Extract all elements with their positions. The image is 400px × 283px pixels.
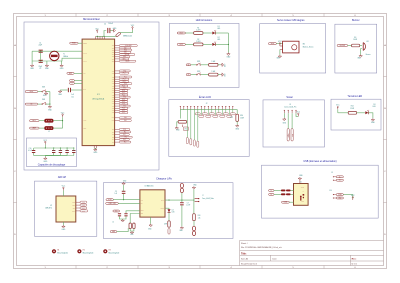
svg-text:PL2: PL2 [123, 134, 126, 136]
ground temoin [371, 118, 376, 124]
IC U1 top power pins [96, 36, 105, 39]
ground chargeur right [192, 186, 195, 189]
svg-text:D3: D3 [373, 104, 375, 106]
ground LEDs [227, 53, 232, 59]
wire A6 to IC [74, 80, 82, 82]
wire R12 to D3 [357, 112, 365, 114]
svg-text:PL3: PL3 [125, 137, 128, 139]
title block frame [240, 240, 384, 265]
svg-text:B1: B1 [188, 64, 190, 66]
net label B1 [186, 64, 191, 66]
wire cap 4 gnd rail [45, 155, 74, 157]
svg-text:Echo: Echo [291, 134, 293, 137]
wire BATT rail [165, 199, 194, 201]
LED D3 [365, 110, 369, 114]
net label AD8 [67, 72, 74, 75]
svg-text:R16: R16 [240, 115, 243, 117]
svg-text:KiCad E.D.A. 8.0.5: KiCad E.D.A. 8.0.5 [241, 263, 257, 266]
svg-text:22pF: 22pF [38, 44, 42, 46]
wire choke to J1 b [291, 193, 294, 195]
junction decoupling 0 [45, 147, 46, 148]
resistor R10 5.1k [209, 73, 218, 76]
net label D- [269, 190, 274, 192]
wire C11 to gnd [60, 89, 68, 91]
svg-text:L2: L2 [48, 131, 50, 133]
svg-text:22pF: 22pF [38, 66, 42, 68]
wire choke to J1 a [291, 190, 294, 192]
svg-text:PC0: PC0 [124, 70, 127, 72]
svg-text:LED & boutons: LED & boutons [196, 19, 213, 22]
wire cap 0 top [33, 148, 35, 150]
wire C4 to GND [111, 30, 113, 32]
svg-text:PC1: PC1 [123, 73, 126, 75]
wire VCC top rail [96, 35, 117, 37]
wire VUSB to J1 [289, 201, 293, 203]
ground servo [278, 55, 281, 58]
svg-text:Date:: Date: [272, 257, 277, 260]
svg-text:LS1: LS1 [366, 41, 369, 43]
wire cap 1 top [53, 148, 55, 150]
svg-text:LED2: LED2 [180, 44, 184, 46]
svg-text:2.2uF: 2.2uF [186, 205, 190, 207]
wire cap 4 top [73, 148, 75, 150]
wire vcc to rail [44, 145, 46, 148]
svg-text:470R: 470R [164, 224, 167, 226]
USB connector J1 body [294, 184, 309, 206]
svg-text:C1: C1 [39, 42, 41, 44]
wire cap 2 gnd rail [45, 155, 60, 157]
connector P1 pad b [180, 188, 183, 193]
svg-text:IC1: IC1 [97, 94, 100, 96]
net label VUSB chargeur [106, 199, 113, 201]
wire XTAL2 to IC [32, 50, 82, 52]
wire R10 to gnd [218, 74, 221, 76]
svg-text:VBUS: VBUS [301, 187, 304, 189]
svg-text:J4: J4 [112, 222, 114, 224]
junction decoupling 4 [73, 147, 74, 148]
capacitor C3 1uF [122, 191, 126, 194]
IC U1 right labels group C [112, 117, 132, 122]
net label Servo [268, 43, 276, 45]
svg-text:PL5: PL5 [124, 142, 127, 144]
svg-text:J3: J3 [331, 172, 333, 174]
servo M1 pins [280, 46, 283, 50]
svg-text:BUZZER: BUZZER [340, 45, 345, 47]
wire SELV left [126, 211, 140, 213]
svg-text:Écran LCD: Écran LCD [199, 96, 211, 99]
ground decoupling [43, 157, 48, 163]
wire servo signal [276, 43, 282, 45]
svg-text:Conn_01x04_Pin: Conn_01x04_Pin [284, 107, 296, 109]
svg-text:M1: M1 [303, 44, 305, 46]
wire uCAP [71, 89, 82, 91]
ground R cluster [130, 231, 133, 234]
resistor R1 2.2k [194, 32, 203, 35]
wire to FB1 [39, 120, 45, 122]
section box USB [262, 165, 379, 218]
svg-text:D2: D2 [218, 37, 220, 39]
USB J1 pin names [301, 187, 305, 203]
switch SW4 [42, 102, 47, 104]
svg-text:VUSB: VUSB [338, 194, 342, 196]
net label LED1 [177, 32, 185, 34]
connector J10 pins [333, 194, 336, 198]
mounting hole H3 [103, 249, 107, 253]
wire sonar vcc [296, 113, 298, 116]
diode D5 diagonal [116, 32, 121, 37]
wire sonar echo [291, 113, 293, 128]
wire buzzer gnd [361, 49, 362, 55]
resistor R14 1.2k [193, 214, 196, 221]
svg-text:D+: D+ [339, 180, 341, 182]
net label GND right [336, 197, 343, 199]
wire to FB2 [39, 127, 45, 129]
wire to C4 [104, 31, 106, 37]
wire LED gnd drop [227, 33, 229, 53]
wire to gnd sw [49, 104, 51, 105]
wire rail to R14 [193, 200, 195, 214]
net label D+ [269, 193, 274, 195]
svg-text:1.2k: 1.2k [198, 217, 201, 219]
wire cap 2 top [59, 148, 61, 150]
svg-text:SCK: SCK [73, 207, 76, 209]
IC U1 bottom pins [94, 146, 96, 149]
svg-text:Microcontrôleur: Microcontrôleur [83, 18, 100, 21]
sonar connector J5 pins [284, 110, 297, 113]
section box Microcontroleur [24, 22, 159, 170]
section box Capacites de decouplage [27, 138, 77, 167]
ground above USB [298, 177, 301, 180]
resistor R9 5.1k [209, 63, 218, 66]
FB2 dots [46, 127, 52, 130]
net label D- right [336, 176, 343, 178]
VCC symbol AVCC [61, 112, 65, 117]
wire B1 to SW1 [191, 64, 197, 66]
IC U3 body [140, 190, 165, 217]
svg-text:ID: ID [303, 197, 304, 199]
wire SEL left [130, 214, 140, 224]
IC U1 left pin names [83, 43, 87, 130]
wire R15 R17 join [130, 229, 134, 231]
wire caps join [120, 216, 127, 219]
wire sonar trig [287, 113, 289, 128]
wire diode to VCC2 [120, 30, 133, 33]
capacitor C2 22pF [39, 60, 43, 63]
capacitor C7 decoupling [59, 150, 62, 153]
svg-text:Size: A4: Size: A4 [241, 257, 248, 260]
svg-text:Trigger: Trigger [287, 133, 289, 138]
svg-text:EN: EN [141, 203, 143, 205]
net label AVCC [30, 119, 40, 122]
net label A6 [70, 79, 75, 82]
switch SW2 [196, 73, 201, 75]
wire AD8 to IC [74, 72, 82, 74]
wire C1 to C2 [40, 53, 42, 60]
svg-text:PG1: PG1 [112, 120, 115, 122]
switch SW3 [42, 90, 47, 92]
wire IC gnd join [94, 147, 96, 149]
svg-text:RESET: RESET [83, 43, 87, 45]
svg-text:AIR GP: AIR GP [58, 176, 67, 179]
mounting hole H1 [52, 249, 56, 253]
svg-text:MBR120-500: MBR120-500 [123, 36, 132, 38]
svg-text:J2: J2 [206, 103, 208, 105]
svg-text:B2: B2 [188, 74, 190, 76]
svg-text:B3: B3 [31, 104, 33, 106]
crystal Y1 [50, 51, 59, 60]
wire LCD header rail [180, 109, 234, 111]
svg-text:R4: R4 [354, 37, 356, 39]
ferrite bead FB2 [45, 127, 54, 130]
svg-text:VUSB: VUSB [108, 199, 112, 201]
FB1 dots [46, 119, 52, 122]
ground crystal 2 [45, 64, 50, 70]
ground under IC U1 [93, 148, 98, 154]
wire U3 gnd [150, 217, 152, 224]
wire cap 0 gnd rail [34, 155, 46, 157]
wire node to VCC [62, 117, 64, 128]
svg-text:Conn_01x02_Male: Conn_01x02_Male [202, 198, 214, 200]
svg-text:H3: H3 [109, 250, 111, 252]
wire vcc drop [337, 109, 339, 113]
svg-text:Id: 1/1: Id: 1/1 [352, 264, 357, 266]
svg-text:Rev:: Rev: [352, 259, 357, 261]
section box Servo moteur [260, 24, 326, 73]
wire R1 to D1 [203, 32, 212, 34]
svg-text:Mountinghole: Mountinghole [83, 252, 94, 255]
wire SW2 to R10 [201, 74, 209, 76]
svg-text:PG0: PG0 [112, 117, 115, 119]
wire CHRG to U3 [118, 202, 140, 204]
net label SJ chargeur [113, 210, 120, 212]
wire PROG to D4 [165, 207, 169, 210]
junction conn branch [193, 200, 194, 201]
svg-text:SCK: SCK [82, 207, 85, 209]
wire cap 2 bottom [59, 153, 61, 156]
VCC symbol USB [351, 195, 355, 200]
svg-text:PG1: PG1 [124, 120, 127, 122]
wire SW1 to R9 [201, 64, 209, 66]
junction crystal bottom [54, 60, 55, 61]
capacitor C4 100nF [107, 28, 110, 33]
common mode choke FL1 [281, 190, 291, 196]
net label PROG vertical [168, 229, 170, 235]
ground C7 [180, 226, 183, 229]
ground right of C4 [113, 29, 116, 32]
svg-text:LED: LED [172, 212, 175, 214]
svg-text:Servo: Servo [271, 43, 275, 45]
wire XTAL1 to IC [32, 58, 82, 61]
wire R16 to gnd [236, 121, 238, 124]
wire D1 to gnd node [215, 32, 228, 34]
svg-text:Chargeur LiPo: Chargeur LiPo [156, 178, 172, 181]
junction decoupling 2 [60, 147, 61, 148]
svg-text:COM-USB1: COM-USB1 [125, 45, 132, 47]
capacitor C6 decoupling [52, 150, 55, 153]
wire D2 to gnd node [215, 43, 228, 45]
svg-text:VCC: VCC [184, 128, 187, 130]
wire D- to choke [274, 190, 281, 192]
ground under C11 [58, 90, 63, 96]
connector P1 pad a [180, 183, 183, 188]
wire FB1 to VCC node [53, 120, 62, 122]
wire VUSB chargeur [113, 199, 123, 201]
LCD header J2 pins [180, 106, 233, 110]
svg-text:PC2: PC2 [122, 112, 125, 114]
svg-text:R12: R12 [351, 106, 354, 108]
wire to SW4 [38, 103, 42, 105]
svg-text:GND: GND [130, 234, 133, 236]
op IC U1 body [82, 39, 115, 146]
servo connector M1 body [283, 41, 299, 53]
svg-text:Buzzer: Buzzer [352, 19, 360, 22]
ground buzzer [359, 55, 362, 58]
svg-text:GND: GND [338, 198, 341, 200]
svg-text:LED1: LED1 [180, 33, 184, 35]
section box AIR GP [35, 181, 97, 236]
wire LED2 to R2 [185, 43, 193, 45]
capacitor C12 [118, 213, 121, 216]
section box Chargeur LiPo [103, 183, 233, 239]
svg-text:Y1: Y1 [63, 53, 65, 55]
connector J7 pins [195, 198, 200, 202]
ground U3 [149, 224, 152, 227]
svg-text:1uF: 1uF [71, 94, 74, 96]
svg-text:Sonar: Sonar [286, 96, 293, 99]
wire D4 to R13 [168, 213, 170, 221]
resistor R2 2.2k [194, 43, 203, 46]
junction chargeur in [123, 199, 124, 200]
wire LED1 to R1 [185, 32, 193, 34]
svg-text:CHRG_USB: CHRG_USB [108, 203, 115, 205]
ground cluster [121, 219, 124, 222]
svg-text:VIN: VIN [141, 199, 143, 201]
LED D1 [212, 30, 216, 34]
VCC box RV1 [184, 127, 189, 130]
connector J3 pins [333, 176, 336, 180]
svg-text:Title:: Title: [241, 252, 247, 255]
wire R9 to gnd [218, 64, 221, 66]
junction crystal top [54, 51, 55, 52]
svg-text:MISO: MISO [72, 205, 75, 207]
svg-text:J10: J10 [329, 190, 332, 192]
wire D3 to gnd [368, 113, 373, 119]
battery holder BT1 pad a [192, 226, 195, 231]
svg-text:Témoins LED: Témoins LED [347, 95, 362, 98]
ground under SW4 [48, 105, 53, 111]
ferrite bead FB1 [45, 119, 54, 122]
ground R10 [221, 73, 224, 76]
wire U2 gnd [62, 222, 64, 225]
net label Reset [70, 42, 78, 45]
net label CHRG chargeur [106, 202, 119, 204]
ground AIR GP [62, 225, 67, 231]
net label Reset [25, 90, 38, 93]
LCD control wires down [187, 110, 198, 141]
net label D+ right [336, 179, 343, 181]
wire R14 to BT1 [193, 221, 195, 226]
wire FB2 to node [53, 127, 62, 129]
capacitor C1 22pF [39, 50, 43, 53]
wire cap 3 top [66, 148, 68, 150]
svg-text:File: POUZERGH--CARON-MALIRE_K: File: POUZERGH--CARON-MALIRE_KiCad_sch [241, 246, 282, 249]
wire cap 3 gnd rail [45, 155, 67, 157]
svg-text:SEL: SEL [141, 213, 144, 215]
svg-text:GND: GND [301, 201, 304, 203]
svg-text:SW5: SW5 [42, 87, 45, 89]
wire gnd mid stub [46, 61, 48, 64]
wire gnd stub decoupling [44, 156, 46, 158]
svg-text:J7: J7 [202, 195, 204, 197]
svg-text:H2: H2 [83, 250, 85, 252]
svg-text:D+: D+ [270, 194, 272, 196]
section box Buzzer [335, 24, 377, 73]
wire vcc to U2 [62, 190, 64, 196]
svg-text:USB (données et alimentation): USB (données et alimentation) [303, 160, 336, 163]
IC U1 right labels group A [112, 45, 137, 63]
capacitor C8 decoupling [65, 150, 68, 153]
net label Echo vertical [291, 129, 293, 141]
decoupling cap values [52, 149, 76, 151]
svg-text:H1: H1 [57, 250, 59, 252]
svg-text:L1: L1 [48, 123, 50, 125]
ground R16 [235, 124, 240, 130]
junction VCC rail [97, 36, 98, 37]
svg-text:GND: GND [223, 74, 225, 77]
svg-text:100nF: 100nF [72, 149, 76, 151]
svg-text:Servo moteur 180 degrés: Servo moteur 180 degrés [277, 19, 305, 22]
LED D4 [168, 209, 171, 212]
svg-text:J1: J1 [300, 182, 302, 184]
mounting hole H2 [77, 249, 81, 253]
svg-text:R1: R1 [197, 27, 199, 29]
svg-text:R2: R2 [197, 39, 199, 41]
junction LED gnd [228, 44, 229, 45]
buzzer LS1 [363, 43, 365, 51]
VCC symbol top right [131, 25, 135, 30]
wire decoupling rail [34, 147, 74, 149]
svg-text:PC5: PC5 [124, 83, 127, 85]
section box Temoins LED [331, 99, 381, 130]
switch SW1 [196, 63, 201, 65]
svg-text:Mountinghole: Mountinghole [109, 252, 120, 255]
capacitor C5 decoupling [32, 150, 35, 153]
LCD data net labels [195, 110, 235, 118]
capacitor C13 [124, 213, 127, 216]
svg-text:C11: C11 [71, 96, 74, 98]
wire rail to C7 [181, 200, 183, 202]
svg-text:C4: C4 [104, 24, 106, 26]
RV1 arrow [181, 125, 183, 127]
ground top chargeur [122, 182, 125, 185]
section box Ecran LCD [169, 100, 249, 157]
net label VUSB usb [282, 201, 290, 203]
svg-text:PROG: PROG [161, 208, 165, 210]
svg-text:100nF: 100nF [65, 149, 69, 151]
junction AVCC node [62, 120, 63, 121]
resistor R12 120R [348, 111, 356, 114]
svg-text:16MHz: 16MHz [63, 56, 68, 58]
svg-text:INT5: INT5 [123, 58, 126, 60]
wire gnd right stub [61, 61, 63, 64]
resistor R17 [133, 223, 135, 229]
svg-text:C3: C3 [115, 191, 117, 193]
VCC symbol sonar [297, 112, 301, 117]
svg-text:PL4: PL4 [123, 139, 126, 141]
IC U2 right labels [72, 201, 88, 212]
net label B2 [186, 74, 191, 76]
wire C7 to gnd [181, 205, 183, 226]
